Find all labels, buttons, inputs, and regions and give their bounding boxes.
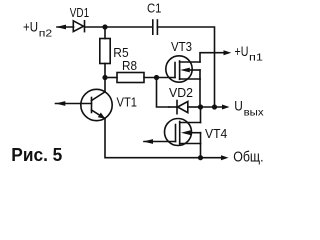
wire: R8 to VT3 gate <box>144 77 175 79</box>
capacitor C1 <box>153 20 158 34</box>
transistor VT3 (n-channel mosfet) <box>166 56 200 82</box>
wire: VT3 drain to +Un1 arrow <box>200 50 231 62</box>
svg-text:VD1: VD1 <box>70 6 89 20</box>
resistor R5 <box>100 27 110 78</box>
svg-text:+U: +U <box>235 43 249 59</box>
resistor R8 <box>117 73 144 83</box>
svg-text:+U: +U <box>23 19 38 35</box>
wire: VT4 gate with left arrow <box>143 139 176 144</box>
wire: C1 right plate to corner then down to output node <box>157 27 214 107</box>
junction: R5 bottom / VT1 collector node <box>102 75 107 80</box>
junction: VT4 source on ground wire <box>198 155 203 160</box>
wire: node to R8 <box>105 77 117 79</box>
wire: VD1 cathode to C1 left plate <box>85 26 153 28</box>
wire: VT4 source down to ground <box>200 144 202 158</box>
svg-text:U: U <box>234 98 243 114</box>
svg-text:Общ.: Общ. <box>233 150 263 166</box>
wire: +Un2 feed with left arrow <box>56 25 74 30</box>
junction: VD2 branch node <box>154 75 159 80</box>
svg-text:п1: п1 <box>249 52 263 64</box>
node: +Un2 label <box>23 19 52 40</box>
wire: branch down to VD2 <box>157 78 170 108</box>
svg-text:VT4: VT4 <box>205 127 227 141</box>
wire: VT4 drain up to output node <box>200 107 202 123</box>
junction: bootstrap C1 to output node <box>212 104 217 109</box>
svg-text:VT1: VT1 <box>117 95 138 109</box>
diode VD1 <box>73 21 84 32</box>
svg-text:вых: вых <box>244 107 265 119</box>
node: Uvyh label <box>234 98 264 119</box>
svg-text:Рис. 5: Рис. 5 <box>11 145 62 165</box>
wire: output line with junctions and arrow to Uvyh <box>201 105 230 110</box>
svg-text:C1: C1 <box>147 2 161 16</box>
transistor VT1 (npn) <box>55 89 112 120</box>
svg-text:R5: R5 <box>113 46 128 60</box>
junction: VT3 source / VT4 drain output node <box>198 104 203 109</box>
wire: VT1 emitter down and along ground to arrow <box>105 119 229 161</box>
diode VD2 <box>169 101 201 114</box>
wire: VT1 collector up to node <box>104 78 106 92</box>
svg-text:VD2: VD2 <box>169 86 193 100</box>
wire: VT3 source down to output node <box>199 79 201 107</box>
junction: top node above R5 <box>102 24 107 29</box>
node: +Un1 label <box>235 43 264 64</box>
transistor VT4 (n-channel mosfet) <box>165 119 201 146</box>
svg-text:R8: R8 <box>122 59 137 73</box>
svg-text:VT3: VT3 <box>171 40 192 54</box>
svg-text:п2: п2 <box>39 27 53 39</box>
